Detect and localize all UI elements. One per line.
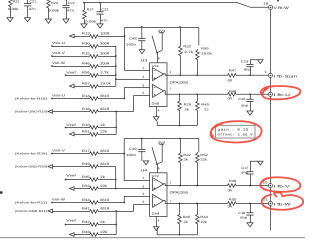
capacitor C21 bbox=[27, 0, 29, 4]
svg-text:2k: 2k bbox=[100, 123, 105, 127]
rail U4 input net bbox=[124, 138, 199, 140]
wire right rail bbox=[270, 10, 272, 231]
red circle note bbox=[210, 121, 261, 142]
wire pin6 U4 bbox=[123, 196, 125, 202]
junctions R32 R52 output bbox=[179, 185, 181, 187]
junction R17 feedback bbox=[123, 153, 125, 155]
frame bottom border bbox=[0, 237, 305, 239]
svg-text:Vref: Vref bbox=[66, 174, 76, 178]
resistor R45 bbox=[196, 94, 198, 100]
capacitor C22 bbox=[65, 0, 67, 5]
capacitor C17 bbox=[249, 174, 251, 186]
resistor R14 bbox=[51, 98, 53, 100]
svg-text:C16: C16 bbox=[238, 97, 245, 101]
svg-text:Gnd: Gnd bbox=[152, 101, 160, 105]
wire pin2 U3 bbox=[125, 27, 150, 70]
wire pin3 U4 bbox=[116, 188, 150, 190]
resistor R47 bbox=[164, 74, 227, 76]
capacitor C23 bbox=[99, 3, 101, 12]
svg-text:OPA2350: OPA2350 bbox=[170, 190, 189, 194]
svg-text:47n: 47n bbox=[67, 8, 74, 12]
svg-text:C21: C21 bbox=[29, 0, 36, 4]
resistor R20 bbox=[179, 27, 181, 45]
svg-text:3V3: 3V3 bbox=[158, 140, 166, 144]
svg-text:R16: R16 bbox=[82, 107, 90, 111]
svg-text:V fb-W: V fb-W bbox=[273, 6, 289, 10]
bus U3A inputs bbox=[115, 46, 117, 86]
svg-text:R43: R43 bbox=[82, 230, 90, 234]
rail U3 gnd divider bbox=[157, 121, 197, 125]
svg-text:2.7k: 2.7k bbox=[100, 71, 109, 75]
op-amp U3 bbox=[150, 63, 168, 107]
svg-text:C48: C48 bbox=[129, 36, 137, 40]
ground R27 bbox=[81, 24, 87, 28]
junctions R20 R55 output bbox=[179, 74, 181, 76]
junction R14 bbox=[123, 98, 125, 100]
junctions bus B bbox=[115, 111, 117, 113]
ground C17 bbox=[258, 161, 264, 165]
junction C16 bbox=[249, 93, 251, 95]
svg-text:R56: R56 bbox=[82, 71, 90, 75]
svg-text:R53: R53 bbox=[82, 184, 90, 188]
svg-text:100n: 100n bbox=[126, 43, 136, 47]
svg-text:881R: 881R bbox=[100, 107, 110, 111]
svg-text:22k: 22k bbox=[100, 230, 107, 234]
wire pin2 U4 bbox=[124, 139, 149, 181]
svg-text:R20: R20 bbox=[183, 44, 191, 48]
svg-text:(Kelvin-GND-R11): (Kelvin-GND-R11) bbox=[15, 209, 47, 213]
svg-text:C23: C23 bbox=[101, 8, 108, 12]
resistor R53 bbox=[70, 187, 75, 191]
svg-text:I fb-V: I fb-V bbox=[274, 185, 291, 189]
resistor R46 bbox=[51, 65, 53, 67]
ground C16 bbox=[247, 111, 253, 115]
svg-text:22: 22 bbox=[204, 108, 209, 112]
svg-text:R21: R21 bbox=[13, 0, 20, 4]
svg-text:Vsh-V: Vsh-V bbox=[52, 51, 66, 55]
svg-text:2k: 2k bbox=[183, 158, 188, 162]
svg-text:881R: 881R bbox=[100, 207, 110, 211]
svg-text:R51: R51 bbox=[82, 130, 90, 134]
ground C22 bbox=[63, 19, 69, 23]
svg-text:881R: 881R bbox=[100, 94, 110, 98]
red circle I fb-W bbox=[262, 192, 304, 209]
svg-text:100n: 100n bbox=[126, 153, 136, 157]
svg-text:R50: R50 bbox=[229, 197, 237, 201]
svg-text:2k: 2k bbox=[100, 220, 105, 224]
svg-text:gain : 0.25: gain : 0.25 bbox=[218, 128, 249, 132]
svg-text:I fb-W: I fb-W bbox=[274, 203, 292, 207]
ground R21 bbox=[7, 18, 13, 22]
svg-text:C15: C15 bbox=[241, 59, 249, 63]
svg-text:Vsh-U: Vsh-U bbox=[52, 41, 66, 45]
capacitor C18 bbox=[249, 203, 251, 212]
svg-text:881R: 881R bbox=[100, 149, 110, 153]
resistor R27 bbox=[83, 3, 85, 9]
svg-text:2.7k: 2.7k bbox=[184, 50, 194, 54]
rail U4 gnd divider bbox=[157, 228, 197, 235]
svg-text:7: 7 bbox=[170, 87, 172, 91]
bus U4A bbox=[115, 167, 117, 189]
svg-text:5: 5 bbox=[142, 200, 144, 204]
junctions bus A bbox=[115, 55, 117, 57]
svg-text:C22: C22 bbox=[68, 1, 75, 5]
svg-text:Vref: Vref bbox=[66, 71, 76, 75]
capacitor C16 bbox=[249, 94, 251, 99]
junction C17 bbox=[249, 185, 251, 187]
svg-text:U4: U4 bbox=[141, 169, 148, 173]
svg-text:7: 7 bbox=[170, 200, 172, 204]
svg-text:R17: R17 bbox=[82, 149, 90, 153]
svg-text:R44: R44 bbox=[200, 215, 208, 219]
terminal I fb-U bbox=[268, 92, 272, 96]
resistor R29 bbox=[179, 94, 181, 100]
svg-text:22k: 22k bbox=[200, 158, 207, 162]
resistor R44 bbox=[196, 203, 198, 213]
svg-text:2: 2 bbox=[142, 176, 144, 180]
wire pin5 U3 bbox=[133, 95, 135, 111]
resistor R34 bbox=[51, 202, 53, 204]
svg-text:R13: R13 bbox=[82, 32, 90, 36]
svg-text:R46: R46 bbox=[82, 62, 90, 66]
svg-text:6: 6 bbox=[142, 192, 144, 196]
svg-text:R30: R30 bbox=[82, 42, 90, 46]
svg-text:C18: C18 bbox=[238, 211, 245, 215]
junction C15 bbox=[249, 74, 251, 76]
junctions R29 R45 bbox=[179, 125, 181, 127]
resistor R16 bbox=[48, 110, 53, 114]
svg-text:100R: 100R bbox=[100, 32, 110, 36]
svg-text:2k: 2k bbox=[100, 175, 105, 179]
svg-text:C49: C49 bbox=[129, 147, 137, 151]
svg-text:R24: R24 bbox=[51, 1, 58, 5]
svg-text:Gnd: Gnd bbox=[152, 211, 160, 215]
svg-text:U3: U3 bbox=[141, 59, 148, 63]
resistor R51 bbox=[70, 132, 75, 136]
svg-text:881R: 881R bbox=[100, 198, 110, 202]
svg-text:9: 9 bbox=[265, 70, 267, 74]
svg-text:29.0k: 29.0k bbox=[201, 52, 212, 56]
svg-text:Vref: Vref bbox=[66, 219, 76, 223]
svg-text:R55: R55 bbox=[201, 46, 209, 50]
svg-text:300R: 300R bbox=[100, 52, 110, 56]
svg-text:29.0k: 29.0k bbox=[100, 82, 111, 86]
svg-text:R15: R15 bbox=[82, 52, 90, 56]
svg-text:300R: 300R bbox=[100, 42, 110, 46]
svg-text:(Kelvin-ko-R18): (Kelvin-ko-R18) bbox=[15, 96, 47, 100]
svg-text:881R: 881R bbox=[100, 162, 110, 166]
svg-text:(Kelvin-GND-R18): (Kelvin-GND-R18) bbox=[15, 109, 47, 113]
svg-text:22k: 22k bbox=[100, 184, 107, 188]
junctions bus D bbox=[115, 210, 117, 212]
svg-text:2: 2 bbox=[142, 66, 144, 70]
svg-text:R45: R45 bbox=[201, 102, 209, 106]
resistor R40 bbox=[179, 203, 181, 213]
resistor R32 bbox=[179, 139, 181, 153]
svg-text:8: 8 bbox=[158, 167, 160, 171]
svg-text:(Kelvin-GND-R39): (Kelvin-GND-R39) bbox=[15, 164, 47, 168]
svg-text:Vref: Vref bbox=[66, 123, 76, 127]
junction top edge bbox=[277, 0, 279, 2]
resistor R57 bbox=[70, 84, 75, 88]
svg-text:R48: R48 bbox=[229, 90, 237, 94]
terminal V fb-W bbox=[268, 5, 272, 9]
junction R13 feedback bbox=[124, 35, 126, 37]
svg-text:6: 6 bbox=[142, 83, 144, 87]
svg-text:Vsh-V: Vsh-V bbox=[52, 149, 66, 153]
svg-text:47n: 47n bbox=[29, 7, 36, 11]
svg-text:Vsh-W: Vsh-W bbox=[52, 198, 65, 202]
junction C23 top bbox=[99, 2, 101, 4]
resistor R13 bbox=[70, 34, 75, 38]
resistor R55 bbox=[198, 27, 200, 45]
svg-text:R18: R18 bbox=[82, 123, 90, 127]
svg-text:9.09k: 9.09k bbox=[85, 20, 97, 24]
resistor R49 bbox=[164, 184, 227, 186]
wire Vfb-W bbox=[84, 3, 268, 8]
svg-text:C17: C17 bbox=[241, 166, 248, 170]
svg-text:(Kelvin-ko-R11): (Kelvin-ko-R11) bbox=[15, 200, 47, 204]
resistor R48 bbox=[164, 91, 227, 95]
terminal I fb-V bbox=[268, 184, 272, 188]
svg-text:R40: R40 bbox=[183, 215, 191, 219]
svg-text:R35: R35 bbox=[82, 175, 90, 179]
svg-text:R33: R33 bbox=[82, 162, 90, 166]
red circle I fb-V bbox=[260, 177, 300, 192]
svg-text:R41: R41 bbox=[82, 207, 90, 211]
ground C21 bbox=[24, 18, 30, 22]
resistor R30 bbox=[51, 45, 53, 47]
svg-text:R29: R29 bbox=[184, 102, 192, 106]
ground C23 bbox=[97, 24, 103, 28]
junction C18 bbox=[249, 203, 251, 205]
svg-text:(Kelvin-ko-R39): (Kelvin-ko-R39) bbox=[15, 151, 47, 155]
note gain offset bbox=[216, 125, 256, 138]
wire pin5 U4 bbox=[133, 204, 135, 211]
svg-text:9.09k: 9.09k bbox=[8, 7, 19, 11]
ground C15 bbox=[258, 60, 264, 64]
svg-text:offset: 1.65 V: offset: 1.65 V bbox=[218, 133, 253, 137]
junction R27 top bbox=[83, 2, 85, 4]
svg-text:Vsh-U: Vsh-U bbox=[52, 94, 66, 98]
svg-text:3: 3 bbox=[142, 184, 144, 188]
svg-text:1: 1 bbox=[170, 70, 172, 74]
svg-text:22k: 22k bbox=[200, 220, 207, 224]
junctions bus C bbox=[115, 179, 117, 181]
op-amp U4 bbox=[150, 173, 168, 217]
svg-text:R32: R32 bbox=[183, 153, 191, 157]
resistor R21 bbox=[9, 0, 13, 8]
resistor R33 bbox=[48, 165, 53, 169]
svg-text:R27: R27 bbox=[87, 8, 94, 12]
svg-text:OPA2350: OPA2350 bbox=[170, 80, 189, 84]
svg-text:R47: R47 bbox=[229, 69, 237, 73]
resistor R43 bbox=[70, 233, 75, 237]
resistor R15 bbox=[51, 55, 53, 57]
svg-text:4: 4 bbox=[158, 219, 160, 223]
ground C48 bbox=[139, 50, 145, 54]
svg-text:R42: R42 bbox=[82, 220, 90, 224]
svg-text:47n: 47n bbox=[101, 18, 108, 22]
red circle I fb-U bbox=[261, 86, 301, 99]
capacitor C48 bbox=[141, 27, 143, 38]
svg-text:R52: R52 bbox=[200, 153, 208, 157]
bus U3B bbox=[115, 112, 117, 135]
svg-text:dnp: dnp bbox=[244, 68, 251, 72]
svg-text:1: 1 bbox=[170, 180, 172, 184]
resistor R41 bbox=[48, 209, 53, 213]
svg-text:R14: R14 bbox=[82, 94, 90, 98]
resistor R50 bbox=[164, 201, 227, 204]
ground C18 bbox=[247, 223, 253, 227]
svg-text:I fb-Sum: I fb-Sum bbox=[274, 75, 298, 79]
bus U4B bbox=[115, 211, 117, 235]
capacitor C15 bbox=[249, 66, 251, 75]
terminal I fb-W bbox=[268, 201, 272, 205]
resistor R52 bbox=[198, 139, 200, 153]
svg-text:dnp: dnp bbox=[241, 103, 248, 107]
svg-text:R57: R57 bbox=[82, 82, 90, 86]
svg-text:2k: 2k bbox=[183, 220, 188, 224]
svg-text:8: 8 bbox=[158, 57, 160, 61]
svg-text:9.09k: 9.09k bbox=[48, 9, 59, 13]
ground C49 bbox=[143, 161, 149, 165]
svg-text:18: 18 bbox=[263, 2, 268, 6]
svg-text:3V3: 3V3 bbox=[158, 29, 166, 33]
wire pin6 U3 bbox=[123, 88, 125, 99]
svg-text:R49: R49 bbox=[229, 179, 237, 183]
resistor R24 bbox=[47, 0, 51, 10]
ground R24 bbox=[45, 19, 51, 23]
svg-text:22k: 22k bbox=[100, 130, 107, 134]
capacitor C49 bbox=[141, 139, 143, 149]
svg-text:dnp: dnp bbox=[241, 171, 248, 175]
svg-text:R34: R34 bbox=[82, 198, 90, 202]
svg-text:Vsh-W: Vsh-W bbox=[52, 61, 65, 65]
svg-text:4: 4 bbox=[158, 109, 160, 113]
wire pin3 U3 bbox=[116, 78, 150, 80]
rail U3 input net bbox=[125, 26, 199, 28]
svg-text:300R: 300R bbox=[100, 62, 110, 66]
junctions R40 R44 bbox=[179, 234, 181, 236]
svg-text:2k: 2k bbox=[185, 108, 190, 112]
svg-text:I fb-U: I fb-U bbox=[274, 93, 291, 97]
svg-text:3: 3 bbox=[142, 75, 144, 79]
svg-text:5: 5 bbox=[142, 91, 144, 95]
junction R34 bbox=[123, 202, 125, 204]
resistor R17 bbox=[51, 153, 53, 155]
mark left edge bbox=[0, 191, 3, 194]
terminal I fb-Sum bbox=[268, 73, 272, 77]
svg-text:dnp: dnp bbox=[240, 215, 247, 219]
